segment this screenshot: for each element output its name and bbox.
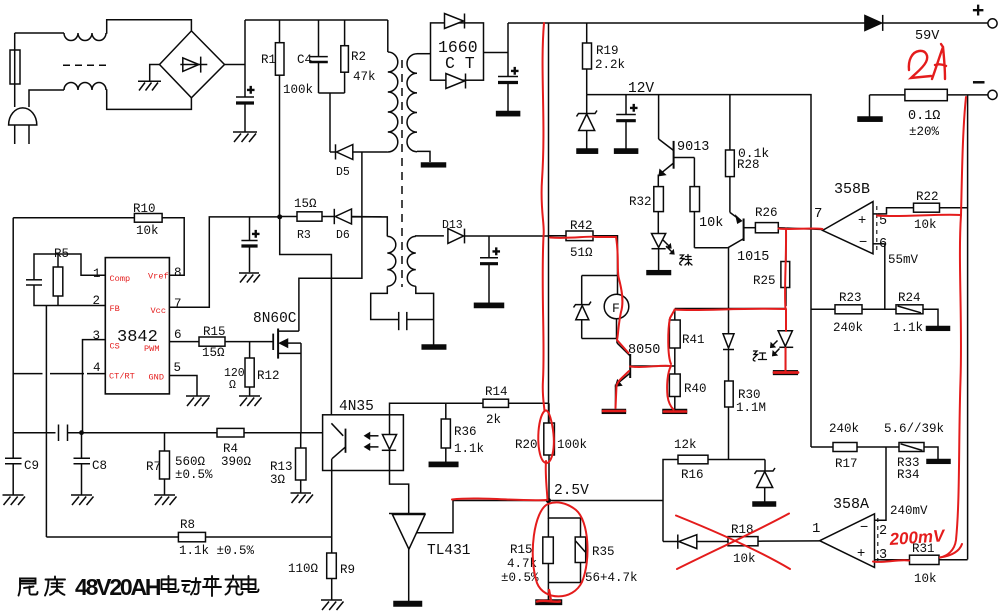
node C8	[79, 430, 84, 435]
wire pin2	[875, 447, 887, 520]
svg-text:R13: R13	[270, 460, 293, 474]
svg-text:2: 2	[879, 524, 887, 539]
svg-text:4N35: 4N35	[339, 399, 374, 415]
resistor R40	[669, 374, 680, 397]
wire rail	[675, 308, 786, 310]
resistor R22	[914, 203, 940, 212]
red 2A handwriting	[909, 51, 931, 78]
svg-text:10k: 10k	[914, 572, 937, 586]
svg-text:R24: R24	[898, 291, 921, 305]
wire 12V rail	[587, 95, 811, 447]
wire pin5 GND	[169, 376, 197, 397]
capacitor C aux	[398, 312, 400, 330]
svg-text:R23: R23	[839, 291, 862, 305]
ground	[475, 303, 504, 307]
svg-text:R2: R2	[351, 50, 366, 64]
resistor R32	[657, 175, 659, 187]
svg-text:+: +	[493, 246, 501, 260]
transformer T1 primary	[387, 20, 389, 52]
svg-text:+: +	[857, 544, 865, 560]
transistor Q1 9013	[658, 95, 660, 139]
svg-text:FB: FB	[110, 304, 120, 314]
wire	[106, 90, 191, 109]
wire	[407, 319, 434, 321]
svg-text:8N60C: 8N60C	[253, 311, 297, 327]
svg-text:100k: 100k	[283, 83, 313, 97]
svg-text:−: −	[859, 233, 867, 249]
wire comp node	[34, 254, 105, 280]
svg-text:F: F	[612, 301, 620, 316]
resistor R28	[729, 95, 731, 150]
opamp U4A 358A	[820, 514, 875, 568]
LED in 4N35	[389, 415, 391, 435]
diode D5	[330, 151, 336, 153]
wire	[150, 65, 160, 82]
svg-text:R12: R12	[257, 369, 280, 383]
transformer T2 secondary	[407, 236, 416, 286]
ground	[154, 495, 177, 505]
resistor R30	[725, 381, 734, 407]
wire pin5 to R22	[878, 208, 914, 214]
ground	[774, 371, 798, 375]
wire red trace mid rail	[675, 309, 786, 310]
wire	[484, 52, 509, 54]
svg-text:2.2k: 2.2k	[595, 58, 625, 72]
svg-text:0.1Ω: 0.1Ω	[908, 109, 940, 124]
wire red trace R26 out	[779, 228, 823, 231]
choke L1 top winding	[64, 33, 106, 41]
label Chinese red	[753, 351, 766, 361]
red circle around R15 R35	[533, 502, 588, 596]
capacitor C 12V	[625, 95, 627, 115]
resistor R20	[548, 403, 550, 423]
caption Chinese 康	[45, 577, 65, 596]
label Chinese green	[680, 255, 692, 266]
wire right bus	[967, 95, 969, 560]
ground	[647, 271, 671, 275]
svg-text:10k: 10k	[136, 224, 159, 238]
wire pin4 CT/RT	[13, 373, 42, 375]
wire LED cathode to TL431	[390, 471, 409, 514]
IC U1 3842	[105, 258, 169, 394]
wire red trace 2.5V	[452, 499, 546, 501]
svg-text:±20%: ±20%	[909, 125, 940, 139]
resistor R8	[46, 536, 178, 538]
ground	[422, 163, 446, 167]
svg-text:3Ω: 3Ω	[270, 473, 286, 487]
svg-text:R20: R20	[515, 438, 538, 452]
svg-text:−: −	[860, 518, 868, 534]
ground	[239, 396, 262, 406]
resistor R24	[896, 305, 923, 314]
svg-text:GND: GND	[149, 373, 164, 383]
svg-text:±0.5%: ±0.5%	[175, 468, 213, 482]
svg-text:R18: R18	[731, 523, 754, 537]
svg-text:5: 5	[174, 361, 182, 375]
wire left rail	[12, 218, 14, 433]
svg-text:1.1k: 1.1k	[454, 442, 484, 456]
svg-text:2: 2	[93, 294, 101, 308]
svg-text:7: 7	[814, 206, 822, 222]
caption Chinese 尼	[19, 579, 38, 596]
svg-text:R36: R36	[454, 425, 477, 439]
wire red trace main vertical	[542, 23, 545, 411]
svg-text:6: 6	[174, 328, 182, 342]
ground	[422, 345, 446, 349]
svg-text:TL431: TL431	[427, 543, 471, 559]
svg-text:±0.5%: ±0.5%	[501, 571, 539, 585]
wire 4N35 collector net	[280, 217, 332, 415]
svg-text:+: +	[858, 211, 866, 227]
wire drain net	[299, 152, 362, 331]
resistor R3	[280, 216, 297, 218]
ground	[858, 117, 882, 121]
wire R14 rail	[390, 403, 484, 415]
svg-text:−: −	[972, 69, 985, 95]
svg-text:C9: C9	[24, 459, 39, 473]
caption Chinese 电 second	[242, 576, 259, 592]
bridge rectifier	[160, 31, 225, 98]
ground	[394, 602, 422, 607]
svg-text:1: 1	[93, 267, 101, 281]
svg-text:12V: 12V	[628, 81, 654, 97]
svg-text:Comp: Comp	[110, 274, 131, 284]
svg-text:R25: R25	[753, 274, 776, 288]
resistor R10	[13, 217, 134, 219]
svg-text:+: +	[630, 102, 638, 116]
svg-text:R16: R16	[681, 468, 704, 482]
svg-text:C8: C8	[92, 459, 107, 473]
svg-text:R34: R34	[897, 468, 920, 482]
wire pin3 to R31	[875, 559, 910, 561]
svg-text:240mV: 240mV	[890, 504, 928, 518]
ground	[927, 460, 950, 464]
svg-text:D13: D13	[442, 219, 463, 232]
svg-text:R41: R41	[682, 333, 705, 347]
diode D output	[865, 16, 882, 31]
wire	[15, 32, 64, 34]
optocoupler U2 4N35	[323, 415, 404, 471]
svg-text:R35: R35	[592, 545, 615, 559]
wire red trace R42 fan 8050	[550, 237, 629, 353]
svg-text:D5: D5	[336, 166, 350, 179]
capacitor C comp	[26, 279, 42, 281]
svg-text:200mV: 200mV	[888, 526, 947, 549]
transistor Q2 1015	[730, 212, 741, 220]
resistor R14	[483, 399, 509, 407]
capacitor C2 output	[498, 76, 518, 78]
ground	[615, 149, 638, 153]
resistor R35	[575, 537, 586, 563]
svg-text:59V: 59V	[915, 29, 940, 44]
svg-text:9013: 9013	[677, 140, 709, 155]
ground	[3, 495, 26, 505]
terminal +	[988, 19, 997, 28]
resistor R4	[217, 428, 244, 437]
diode D13	[448, 229, 464, 244]
svg-text:CS: CS	[110, 342, 120, 352]
resistor R17	[811, 446, 833, 448]
caption Chinese 充	[226, 576, 243, 595]
wire C9C8 rail	[13, 432, 55, 434]
resistor R2	[344, 20, 346, 46]
wire	[106, 20, 191, 33]
transistor Q4 MOSFET 8N60C	[272, 334, 274, 350]
wire collector down	[728, 248, 730, 334]
svg-text:+: +	[972, 0, 984, 22]
resistor R5	[53, 267, 63, 296]
terminal -	[988, 90, 997, 99]
resistor R15	[169, 341, 199, 343]
svg-text:6: 6	[879, 237, 887, 252]
caption Chinese 动	[182, 578, 201, 595]
node 2.5V	[546, 498, 551, 503]
resistor R42	[549, 235, 567, 237]
svg-text:8: 8	[174, 266, 182, 280]
ground	[577, 149, 598, 153]
wire pin6 down	[884, 244, 886, 309]
svg-text:10k: 10k	[733, 552, 756, 566]
svg-text:+: +	[252, 228, 260, 242]
resistor R36	[445, 403, 447, 419]
transformer T2 aux primary	[352, 217, 387, 237]
svg-text:1.1M: 1.1M	[736, 401, 766, 415]
ground	[186, 396, 210, 406]
resistor R25	[785, 228, 787, 262]
svg-text:240k: 240k	[829, 422, 859, 436]
svg-text:358B: 358B	[834, 181, 870, 198]
wire TL431 ref	[417, 501, 548, 533]
red X over R18	[676, 514, 790, 570]
svg-text:R22: R22	[916, 190, 939, 204]
wire	[225, 64, 246, 66]
resistor R31	[910, 555, 940, 564]
resistor R15b	[543, 537, 554, 564]
wire main vertical	[548, 23, 550, 423]
svg-text:5.6//39k: 5.6//39k	[884, 422, 944, 436]
node Vcc junction	[277, 214, 282, 219]
transformer T1 core	[401, 60, 403, 287]
svg-text:15Ω: 15Ω	[202, 346, 225, 360]
svg-text:4: 4	[93, 361, 101, 375]
wire base	[630, 365, 675, 367]
diode top of 1660CT	[445, 14, 464, 29]
svg-text:+: +	[511, 65, 519, 79]
wire fb node	[34, 285, 105, 306]
rectifier module 1660CT	[431, 23, 484, 80]
diode D R18	[663, 541, 678, 543]
resistor R19	[586, 23, 588, 43]
svg-text:48V20AH: 48V20AH	[75, 574, 161, 600]
ground	[233, 132, 257, 142]
caption Chinese 车	[203, 576, 221, 596]
svg-text:47k: 47k	[353, 70, 376, 84]
wire pin3 CS	[83, 340, 106, 433]
svg-text:3: 3	[93, 329, 101, 343]
svg-text:100k: 100k	[557, 438, 587, 452]
diode D mid	[728, 333, 730, 336]
opamp U4B 358B	[823, 202, 873, 254]
svg-text:Vcc: Vcc	[151, 306, 166, 316]
capacitor C aux out	[488, 236, 490, 258]
svg-text:R14: R14	[485, 385, 508, 399]
svg-text:R28: R28	[737, 158, 760, 172]
diode D fan	[581, 276, 583, 305]
AC plug	[9, 108, 37, 125]
svg-text:1: 1	[812, 521, 820, 537]
wire +310V rail	[245, 19, 388, 21]
ground	[663, 410, 687, 414]
svg-text:10k: 10k	[914, 218, 937, 232]
ground	[536, 600, 562, 604]
shunt resistor 0.1ohm	[905, 89, 947, 100]
svg-text:2.5V: 2.5V	[554, 483, 589, 499]
svg-text:R4: R4	[223, 442, 238, 456]
svg-text:R17: R17	[835, 457, 858, 471]
resistor R16	[663, 460, 678, 542]
capacitor C1 bulk	[236, 96, 254, 98]
svg-text:R5: R5	[54, 247, 69, 261]
LED green	[652, 234, 666, 248]
ground	[138, 81, 161, 90]
svg-text:390Ω: 390Ω	[221, 455, 252, 469]
wire red trace right bus	[961, 97, 966, 215]
capacitor C Vcc	[249, 217, 251, 240]
resistor R41	[674, 309, 676, 321]
wire output top rail	[508, 22, 865, 24]
resistor R13	[296, 448, 307, 480]
svg-text:R15: R15	[203, 325, 226, 339]
ground	[602, 410, 625, 414]
svg-text:PWM: PWM	[144, 344, 159, 354]
LED red	[785, 309, 787, 331]
svg-text:Vref: Vref	[148, 272, 169, 282]
svg-text:R19: R19	[596, 44, 619, 58]
divider R15b R35	[548, 501, 580, 519]
svg-text:560Ω: 560Ω	[175, 455, 206, 469]
capacitor C inline	[58, 425, 60, 442]
regulator U3 TL431	[389, 513, 426, 515]
svg-text:R3: R3	[297, 229, 311, 242]
svg-text:D6: D6	[336, 229, 350, 242]
svg-text:R32: R32	[629, 195, 652, 209]
svg-text:51Ω: 51Ω	[570, 246, 593, 260]
fuse F1	[14, 84, 16, 107]
svg-text:R8: R8	[180, 518, 195, 532]
wire	[694, 247, 727, 249]
svg-text:R7: R7	[146, 460, 161, 474]
svg-text:358A: 358A	[833, 496, 869, 513]
svg-text:15Ω: 15Ω	[294, 197, 317, 211]
svg-text:Ω: Ω	[229, 379, 236, 392]
resistor R12	[249, 342, 251, 358]
svg-text:R1: R1	[261, 53, 276, 67]
svg-text:10k: 10k	[699, 216, 723, 231]
svg-text:R30: R30	[738, 388, 761, 402]
resistor R9	[327, 553, 337, 579]
svg-text:8050: 8050	[628, 343, 660, 358]
diode bottom of 1660CT	[446, 74, 465, 89]
ground	[429, 462, 458, 466]
resistor R26	[755, 223, 778, 233]
caption Chinese 电	[162, 576, 179, 592]
ground	[71, 495, 94, 505]
svg-text:110Ω: 110Ω	[288, 562, 319, 576]
transformer T1 secondary	[407, 54, 417, 152]
resistor 10k base	[693, 158, 695, 187]
resistor R1	[279, 20, 281, 43]
transistor Q3 8050	[616, 339, 618, 344]
wire 2.5V to R16	[548, 500, 663, 502]
ground	[291, 493, 314, 503]
resistor R7	[164, 433, 166, 451]
zener D 12V	[586, 95, 588, 114]
wire pin7 Vcc	[169, 217, 279, 307]
wire	[29, 90, 64, 107]
capacitor C9	[12, 433, 14, 458]
capacitor C4	[318, 20, 320, 57]
diode D6	[333, 209, 335, 224]
ground	[927, 327, 950, 331]
svg-text:R9: R9	[340, 563, 355, 577]
svg-text:R42: R42	[570, 219, 593, 233]
ground	[497, 112, 520, 116]
svg-text:C4: C4	[297, 53, 312, 67]
wire red trace pin3	[873, 560, 909, 562]
svg-text:240k: 240k	[833, 321, 863, 335]
resistor R23	[811, 308, 835, 310]
svg-text:R26: R26	[755, 206, 778, 220]
resistor R18	[728, 537, 758, 546]
zener D R16	[764, 460, 766, 472]
svg-text:1.1k: 1.1k	[893, 321, 923, 335]
svg-text:R40: R40	[684, 382, 707, 396]
choke L1 core dashes	[63, 64, 106, 66]
ground	[321, 600, 344, 610]
svg-text:2k: 2k	[486, 413, 501, 427]
ground	[753, 502, 776, 506]
svg-text:CT/RT: CT/RT	[109, 372, 135, 382]
svg-text:12k: 12k	[674, 438, 697, 452]
svg-text:R10: R10	[133, 202, 156, 216]
capacitor C8	[81, 433, 83, 458]
fan motor F	[604, 294, 629, 319]
svg-text:C T: C T	[445, 54, 475, 73]
wire	[319, 92, 345, 94]
svg-text:1.1k ±0.5%: 1.1k ±0.5%	[179, 544, 255, 558]
wire fan rails	[582, 275, 618, 277]
resistor R33 R34	[899, 443, 924, 452]
choke L1 bottom winding	[64, 83, 106, 90]
svg-text:55mV: 55mV	[888, 253, 919, 267]
svg-text:56+4.7k: 56+4.7k	[585, 571, 638, 585]
svg-text:1015: 1015	[737, 250, 769, 265]
svg-text:R15: R15	[510, 543, 533, 557]
ground	[239, 273, 260, 283]
wire emitter to R9	[331, 471, 333, 554]
svg-text:7: 7	[174, 297, 182, 311]
svg-text:+: +	[247, 84, 255, 98]
